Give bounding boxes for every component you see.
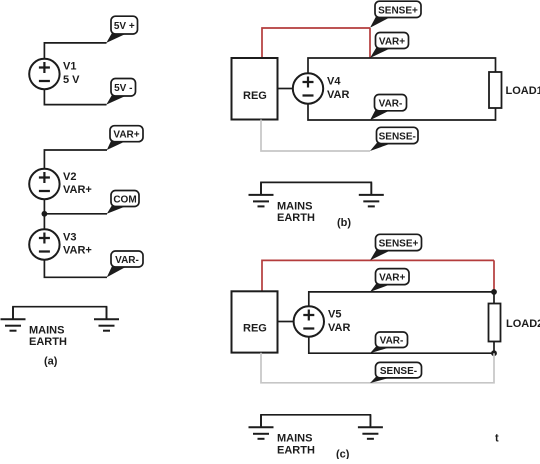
svg-text:MAINS: MAINS bbox=[29, 325, 64, 337]
svg-text:VAR+: VAR+ bbox=[379, 273, 405, 284]
svg-text:VAR+: VAR+ bbox=[379, 36, 405, 47]
svg-text:VAR+: VAR+ bbox=[113, 130, 139, 141]
svg-text:LOAD1: LOAD1 bbox=[506, 85, 540, 97]
svg-text:5V -: 5V - bbox=[114, 83, 132, 94]
svg-text:V1: V1 bbox=[63, 61, 76, 73]
svg-text:MAINS: MAINS bbox=[277, 433, 312, 445]
svg-text:VAR: VAR bbox=[327, 89, 349, 101]
svg-text:SENSE+: SENSE+ bbox=[378, 5, 418, 16]
svg-text:EARTH: EARTH bbox=[277, 212, 315, 224]
svg-text:VAR-: VAR- bbox=[115, 255, 139, 266]
svg-text:VAR+: VAR+ bbox=[63, 184, 92, 196]
svg-text:t: t bbox=[495, 433, 499, 445]
svg-text:COM: COM bbox=[113, 194, 136, 205]
svg-text:(a): (a) bbox=[44, 356, 58, 368]
svg-text:(b): (b) bbox=[337, 217, 351, 229]
svg-text:5V +: 5V + bbox=[114, 21, 135, 32]
svg-text:(c): (c) bbox=[336, 449, 350, 460]
svg-text:VAR-: VAR- bbox=[380, 336, 404, 347]
svg-text:SENSE-: SENSE- bbox=[379, 131, 416, 142]
svg-text:SENSE-: SENSE- bbox=[380, 366, 417, 377]
svg-text:MAINS: MAINS bbox=[277, 201, 312, 213]
svg-text:SENSE+: SENSE+ bbox=[379, 238, 419, 249]
svg-text:V3: V3 bbox=[63, 232, 76, 244]
svg-text:EARTH: EARTH bbox=[277, 445, 315, 457]
svg-text:VAR: VAR bbox=[328, 322, 350, 334]
svg-text:LOAD2: LOAD2 bbox=[506, 318, 540, 330]
svg-text:5 V: 5 V bbox=[63, 74, 80, 86]
svg-text:V5: V5 bbox=[328, 309, 341, 321]
svg-text:VAR-: VAR- bbox=[379, 99, 403, 110]
svg-text:V2: V2 bbox=[63, 171, 76, 183]
svg-text:VAR+: VAR+ bbox=[63, 245, 92, 257]
svg-text:REG: REG bbox=[243, 323, 267, 335]
svg-text:REG: REG bbox=[243, 90, 267, 102]
svg-text:V4: V4 bbox=[327, 76, 341, 88]
svg-text:EARTH: EARTH bbox=[29, 336, 67, 348]
